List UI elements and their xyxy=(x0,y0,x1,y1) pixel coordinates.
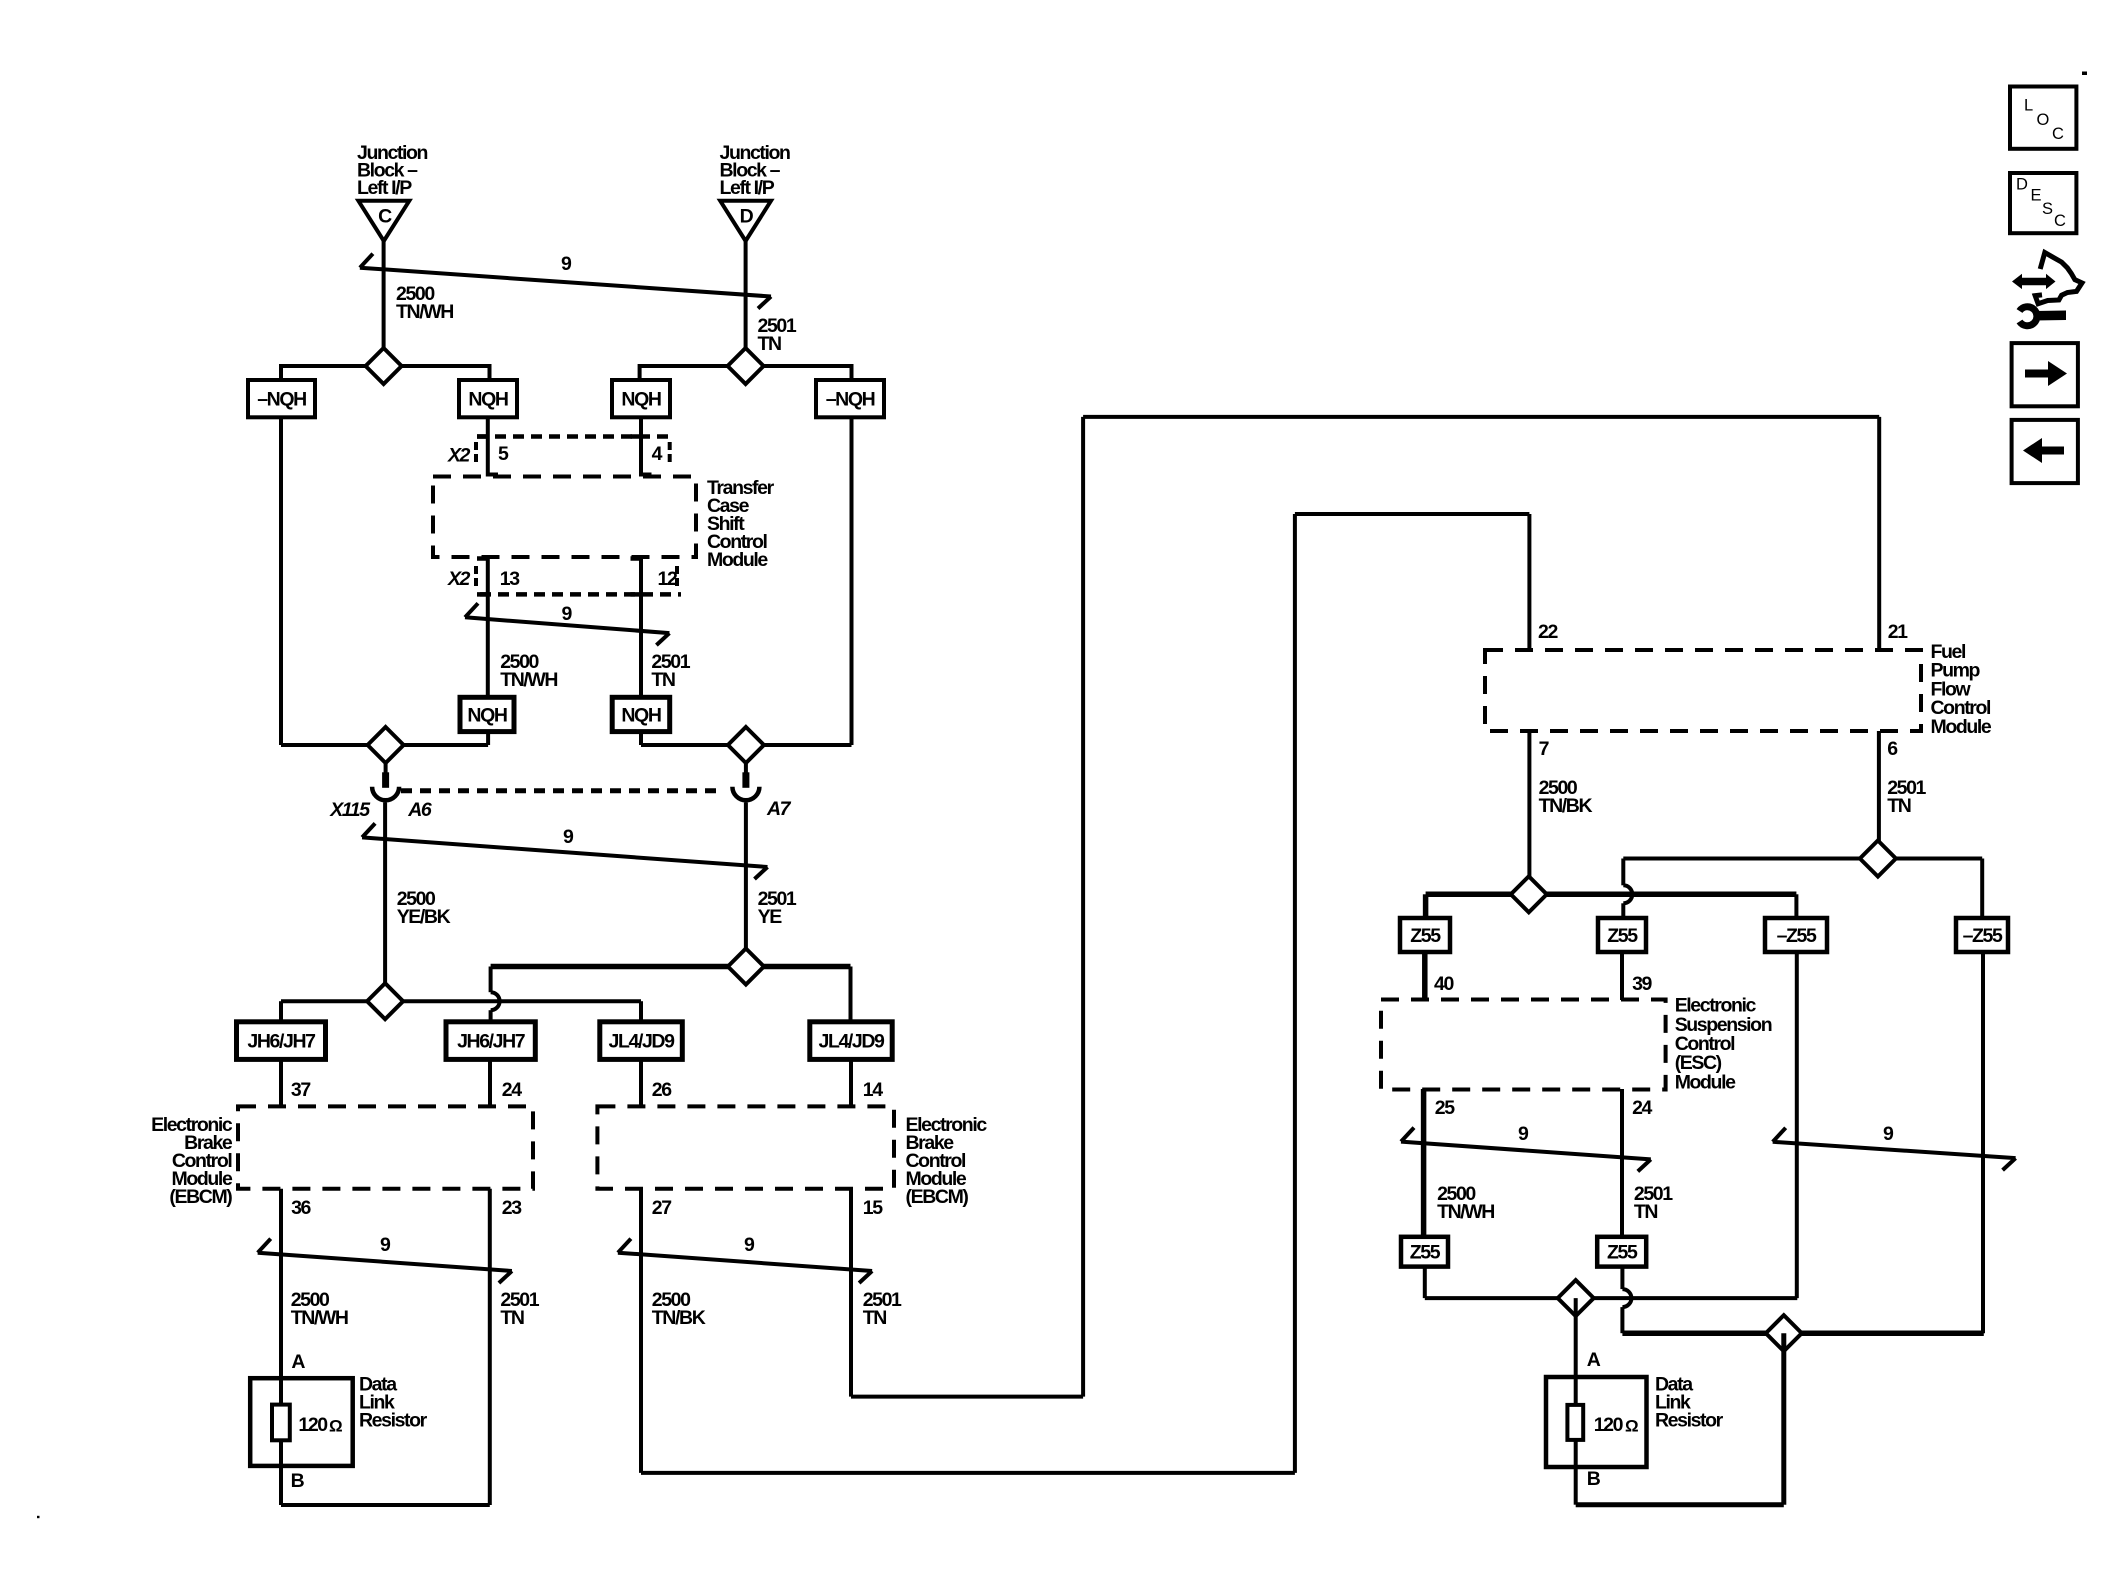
previous page arrow icon box xyxy=(2012,420,2078,483)
svg-text:D: D xyxy=(2016,176,2028,194)
wire from lower Z55 to splice S9 xyxy=(1423,1267,1427,1299)
svg-text:24: 24 xyxy=(1632,1097,1652,1119)
svg-text:X2: X2 xyxy=(447,445,471,467)
wire from junction D down to splice S2 xyxy=(744,239,748,350)
pin 7 wire down to splice S7 xyxy=(1527,731,1531,877)
svg-text:5: 5 xyxy=(498,443,509,465)
connector X115 dashed line between cavities xyxy=(401,788,723,793)
fuse box NQH (lower right) xyxy=(612,697,670,731)
pin 12 wire from module to NQH xyxy=(639,557,643,697)
wire hop over horizontal at S5 bus xyxy=(491,992,500,1010)
svg-text:(EBCM): (EBCM) xyxy=(169,1186,232,1208)
svg-text:–Z55: –Z55 xyxy=(1963,925,2003,947)
EBCM module dashed box (left) xyxy=(238,1106,533,1188)
svg-text:JH6/JH7: JH6/JH7 xyxy=(457,1031,525,1053)
svg-text:21: 21 xyxy=(1888,621,1908,643)
pin 4 wire into transfer case module xyxy=(639,417,643,477)
pin 25 wire from ESC to Z55 xyxy=(1421,1089,1427,1237)
crossing symbol 9 between circuits 2500 and 2501 (top) xyxy=(360,268,771,297)
svg-text:NQH: NQH xyxy=(468,389,507,411)
svg-text:A: A xyxy=(1587,1349,1601,1371)
svg-text:Ω: Ω xyxy=(1625,1417,1639,1436)
wire pin 27 loop to fuel pump module pin 22 xyxy=(641,1471,1295,1475)
wire through resistor (left) xyxy=(279,1378,283,1466)
svg-text:25: 25 xyxy=(1435,1097,1455,1119)
svg-text:S: S xyxy=(2042,200,2053,218)
svg-text:24: 24 xyxy=(502,1079,522,1101)
wire from lower Z55 (pin 24 side) to splice S10 xyxy=(1620,1267,1624,1290)
connector X2 top right bracket dashes xyxy=(668,442,672,450)
svg-text:9: 9 xyxy=(1518,1123,1529,1145)
svg-text:120: 120 xyxy=(298,1414,328,1436)
splice S9 diamond xyxy=(1558,1280,1594,1316)
fuse box NQH (third) xyxy=(612,380,670,417)
fuse box NQH (lower left) xyxy=(460,697,514,731)
svg-text:JL4/JD9: JL4/JD9 xyxy=(819,1031,886,1053)
svg-text:15: 15 xyxy=(863,1197,883,1219)
wire to fuel pump pin 22 (mid) xyxy=(1295,512,1530,516)
wire A6 down to splice S5 xyxy=(383,803,387,985)
svg-text:B: B xyxy=(291,1470,305,1492)
wire bus from splice S2 to NQH and -NQH fuses xyxy=(640,366,852,381)
svg-text:Module: Module xyxy=(1675,1071,1736,1093)
crossing symbol 9 below X115 xyxy=(362,837,767,867)
svg-text:Resistor: Resistor xyxy=(1655,1409,1724,1431)
splice S5 bus to JH6/JH7 and JL4/JD9 (left) xyxy=(281,999,641,1003)
svg-text:TN: TN xyxy=(651,669,675,691)
fuse box -NQH (fourth) xyxy=(816,380,884,417)
svg-text:9: 9 xyxy=(562,603,573,625)
pin 21 wire down into fuel pump module xyxy=(1877,417,1881,650)
svg-text:NQH: NQH xyxy=(621,389,660,411)
wire from splice S9 down to data link resistor A (right) xyxy=(1574,1298,1578,1377)
wire A7 down to splice S6 xyxy=(744,803,748,950)
connector X2 top dashed line xyxy=(477,434,673,439)
svg-text:40: 40 xyxy=(1434,973,1454,995)
data link resistor box (left) xyxy=(250,1378,353,1466)
crossing symbol 9 right of ESC module xyxy=(1773,1142,2016,1158)
svg-text:Ω: Ω xyxy=(329,1417,343,1436)
resistor element 120 ohm (right) xyxy=(1567,1405,1583,1440)
connector box JH6/JH7 (pin 24) xyxy=(446,1022,535,1060)
connector X2 bottom dashed line xyxy=(480,592,681,597)
electronic suspension control module dashed box xyxy=(1381,1000,1666,1090)
svg-text:9: 9 xyxy=(563,826,574,848)
splice S7 diamond xyxy=(1511,876,1547,912)
svg-text:YE/BK: YE/BK xyxy=(397,906,451,928)
svg-text:Module: Module xyxy=(707,549,768,571)
pin 26 wire xyxy=(639,1059,643,1106)
pin 39 wire into ESC module xyxy=(1620,952,1624,1000)
svg-text:Z55: Z55 xyxy=(1410,1242,1441,1264)
svg-text:4: 4 xyxy=(652,443,663,465)
pin 24 wire xyxy=(488,1059,492,1106)
pin 5 wire into transfer case module xyxy=(486,417,490,477)
svg-text:Resistor: Resistor xyxy=(359,1409,428,1431)
wire from B to bottom loop (right) xyxy=(1574,1467,1578,1505)
svg-text:39: 39 xyxy=(1632,973,1652,995)
pin 14 wire xyxy=(849,1059,853,1106)
svg-text:C: C xyxy=(2052,125,2064,143)
pin 40 wire into ESC module xyxy=(1422,952,1428,1000)
svg-text:TN/BK: TN/BK xyxy=(1539,795,1593,817)
bottom loop wire (right) xyxy=(1576,1502,1784,1507)
wire bus from -NQH/NQH down to splice S3 xyxy=(279,417,283,745)
wire bus from splice S1 to -NQH and NQH fuses xyxy=(281,366,490,381)
wire from splice S10 down to bottom loop xyxy=(1781,1333,1786,1505)
svg-text:12: 12 xyxy=(658,568,678,590)
svg-text:–Z55: –Z55 xyxy=(1777,925,1817,947)
svg-text:NQH: NQH xyxy=(621,704,660,726)
DESC icon box xyxy=(2010,173,2076,233)
wire through resistor (right) xyxy=(1574,1377,1578,1467)
wire from B to bottom loop (left) xyxy=(279,1466,283,1505)
bottom loop wire (left) xyxy=(281,1503,490,1507)
connector box JL4/JD9 (pin 14) xyxy=(810,1022,892,1060)
svg-text:A6: A6 xyxy=(407,799,432,821)
svg-text:22: 22 xyxy=(1538,621,1558,643)
svg-text:36: 36 xyxy=(291,1197,311,1219)
svg-text:JL4/JD9: JL4/JD9 xyxy=(609,1031,676,1053)
wiring repair icon (double arrow, outline, wrench) xyxy=(2012,274,2056,289)
splice S10 diamond xyxy=(1766,1315,1802,1351)
svg-text:14: 14 xyxy=(863,1079,883,1101)
splice S3 diamond xyxy=(368,727,404,763)
splice S2 diamond xyxy=(728,348,764,384)
svg-text:–NQH: –NQH xyxy=(826,389,875,411)
svg-text:TN: TN xyxy=(500,1307,524,1329)
crossing symbol 9 below EBCM right xyxy=(618,1253,872,1271)
fuse box Z55 (pin 40) xyxy=(1400,918,1450,952)
pin 27 wire xyxy=(639,1189,643,1473)
next page arrow icon box xyxy=(2012,343,2078,406)
-Z55 wire down to lower bus (first) xyxy=(1795,952,1799,1298)
svg-text:A: A xyxy=(291,1351,305,1373)
splice S8 diamond xyxy=(1860,841,1896,877)
svg-text:9: 9 xyxy=(744,1234,755,1256)
data link resistor box (right) xyxy=(1546,1377,1647,1467)
LOC icon box xyxy=(2010,87,2076,149)
splice S4 diamond xyxy=(728,727,764,763)
svg-text:X115: X115 xyxy=(329,799,371,821)
EBCM module dashed box (right) xyxy=(597,1106,894,1188)
splice S8 bus to Z55 and -Z55 (thin) xyxy=(1623,857,1982,861)
svg-text:–NQH: –NQH xyxy=(257,389,306,411)
fuse box -Z55 (second) xyxy=(1956,918,2008,952)
pin 15 wire xyxy=(849,1189,853,1397)
crossing symbol 9 below ESC module xyxy=(1401,1142,1651,1160)
resistor element 120 ohm (left) xyxy=(272,1405,290,1441)
svg-text:D: D xyxy=(740,206,754,228)
svg-text:23: 23 xyxy=(502,1197,522,1219)
connector box JL4/JD9 (pin 26) xyxy=(600,1022,683,1060)
pin 6 wire down to splice S8 xyxy=(1877,731,1881,841)
wire pin 15 loop to fuel pump module pin 21 xyxy=(851,1395,1083,1399)
wire hop over horizontal at S7 bus xyxy=(1623,885,1632,903)
pin 13 wire from module to NQH xyxy=(486,557,490,697)
splice S5 diamond xyxy=(367,983,403,1019)
svg-text:JH6/JH7: JH6/JH7 xyxy=(247,1031,315,1053)
inline connector X115 cavity A6 pin and cup xyxy=(384,763,388,773)
pin 36 wire to data link resistor A xyxy=(279,1189,283,1378)
svg-text:120: 120 xyxy=(1594,1414,1624,1436)
inline connector X115 cavity A7 pin and cup xyxy=(744,763,748,773)
junction block C triangle connector C xyxy=(358,201,409,241)
fuse box Z55 (pin 39) xyxy=(1598,918,1646,952)
splice S7 bus to Z55 and -Z55 (thick) xyxy=(1426,892,1797,898)
svg-text:TN/WH: TN/WH xyxy=(396,301,453,323)
long wire to fuel pump pin 21 (top) xyxy=(1083,415,1879,419)
svg-text:YE: YE xyxy=(758,906,783,928)
svg-text:37: 37 xyxy=(291,1079,310,1101)
svg-text:Module: Module xyxy=(1931,716,1992,738)
pin 22 wire down into fuel pump module xyxy=(1527,514,1531,650)
svg-text:B: B xyxy=(1587,1468,1601,1490)
connector X2 top left bracket dashes xyxy=(474,442,478,450)
connector X2 bottom left bracket dashes xyxy=(474,566,478,574)
pin 37 wire xyxy=(279,1059,283,1106)
crossing symbol 9 below transfer case module xyxy=(465,617,669,633)
svg-text:26: 26 xyxy=(652,1079,672,1101)
fuse box Z55 (lower right) xyxy=(1597,1237,1646,1267)
svg-text:27: 27 xyxy=(652,1197,671,1219)
wire from junction C down to splice S1 xyxy=(382,239,386,350)
svg-text:(EBCM): (EBCM) xyxy=(906,1186,969,1208)
crossing symbol 9 below EBCM left xyxy=(258,1253,512,1271)
junction block D triangle connector D xyxy=(720,201,771,241)
fuse box Z55 (lower left) xyxy=(1401,1237,1448,1267)
fuse box -NQH (far left) xyxy=(248,380,315,417)
svg-text:Z55: Z55 xyxy=(1607,1242,1638,1264)
fuel pump flow control module dashed box xyxy=(1485,650,1921,731)
svg-text:C: C xyxy=(2054,212,2066,230)
wire bus from NQH/-NQH down to splice S4 xyxy=(850,417,854,745)
svg-text:Z55: Z55 xyxy=(1607,925,1638,947)
fuse box -Z55 (first) xyxy=(1765,918,1827,952)
svg-text:6: 6 xyxy=(1887,738,1898,760)
svg-text:TN: TN xyxy=(1634,1201,1658,1223)
svg-text:TN: TN xyxy=(758,333,782,355)
svg-text:NQH: NQH xyxy=(467,704,506,726)
fuse box NQH (second) xyxy=(459,380,517,417)
svg-text:TN/WH: TN/WH xyxy=(500,669,557,691)
small dot mark (bottom left) xyxy=(37,1516,40,1518)
svg-text:Left I/P: Left I/P xyxy=(357,177,412,199)
svg-text:9: 9 xyxy=(380,1234,391,1256)
wire hop over horizontal at S9 bus xyxy=(1622,1289,1631,1307)
connector box JH6/JH7 (pin 37) xyxy=(237,1022,326,1060)
svg-text:9: 9 xyxy=(1883,1123,1894,1145)
svg-text:TN: TN xyxy=(863,1307,887,1329)
-Z55 wire down to lower bus (second) xyxy=(1981,952,1985,1333)
splice S6 diamond xyxy=(728,949,764,985)
svg-text:TN/WH: TN/WH xyxy=(1437,1201,1494,1223)
pin 23 wire to bottom loop xyxy=(488,1189,492,1505)
svg-text:Z55: Z55 xyxy=(1410,925,1441,947)
svg-text:X2: X2 xyxy=(447,568,471,590)
svg-text:C: C xyxy=(378,206,392,228)
svg-text:E: E xyxy=(2031,187,2042,205)
svg-text:Left I/P: Left I/P xyxy=(720,177,775,199)
svg-text:TN: TN xyxy=(1887,795,1911,817)
svg-text:TN/BK: TN/BK xyxy=(652,1307,706,1329)
svg-text:9: 9 xyxy=(561,253,572,275)
splice S1 diamond xyxy=(366,348,402,384)
splice S6 bus to JH6/JH7 and JL4/JD9 (right) xyxy=(491,964,746,970)
svg-text:A7: A7 xyxy=(766,798,792,820)
svg-text:O: O xyxy=(2037,111,2050,129)
svg-text:L: L xyxy=(2024,97,2033,115)
svg-text:7: 7 xyxy=(1539,738,1549,760)
transfer case shift control module dashed box xyxy=(433,477,696,558)
small dash mark (top right) xyxy=(2082,72,2087,76)
pin 24 wire from ESC to Z55 xyxy=(1620,1089,1624,1237)
svg-text:13: 13 xyxy=(500,568,520,590)
svg-text:TN/WH: TN/WH xyxy=(291,1307,348,1329)
connector X2 bottom right bracket dashes xyxy=(675,566,679,574)
